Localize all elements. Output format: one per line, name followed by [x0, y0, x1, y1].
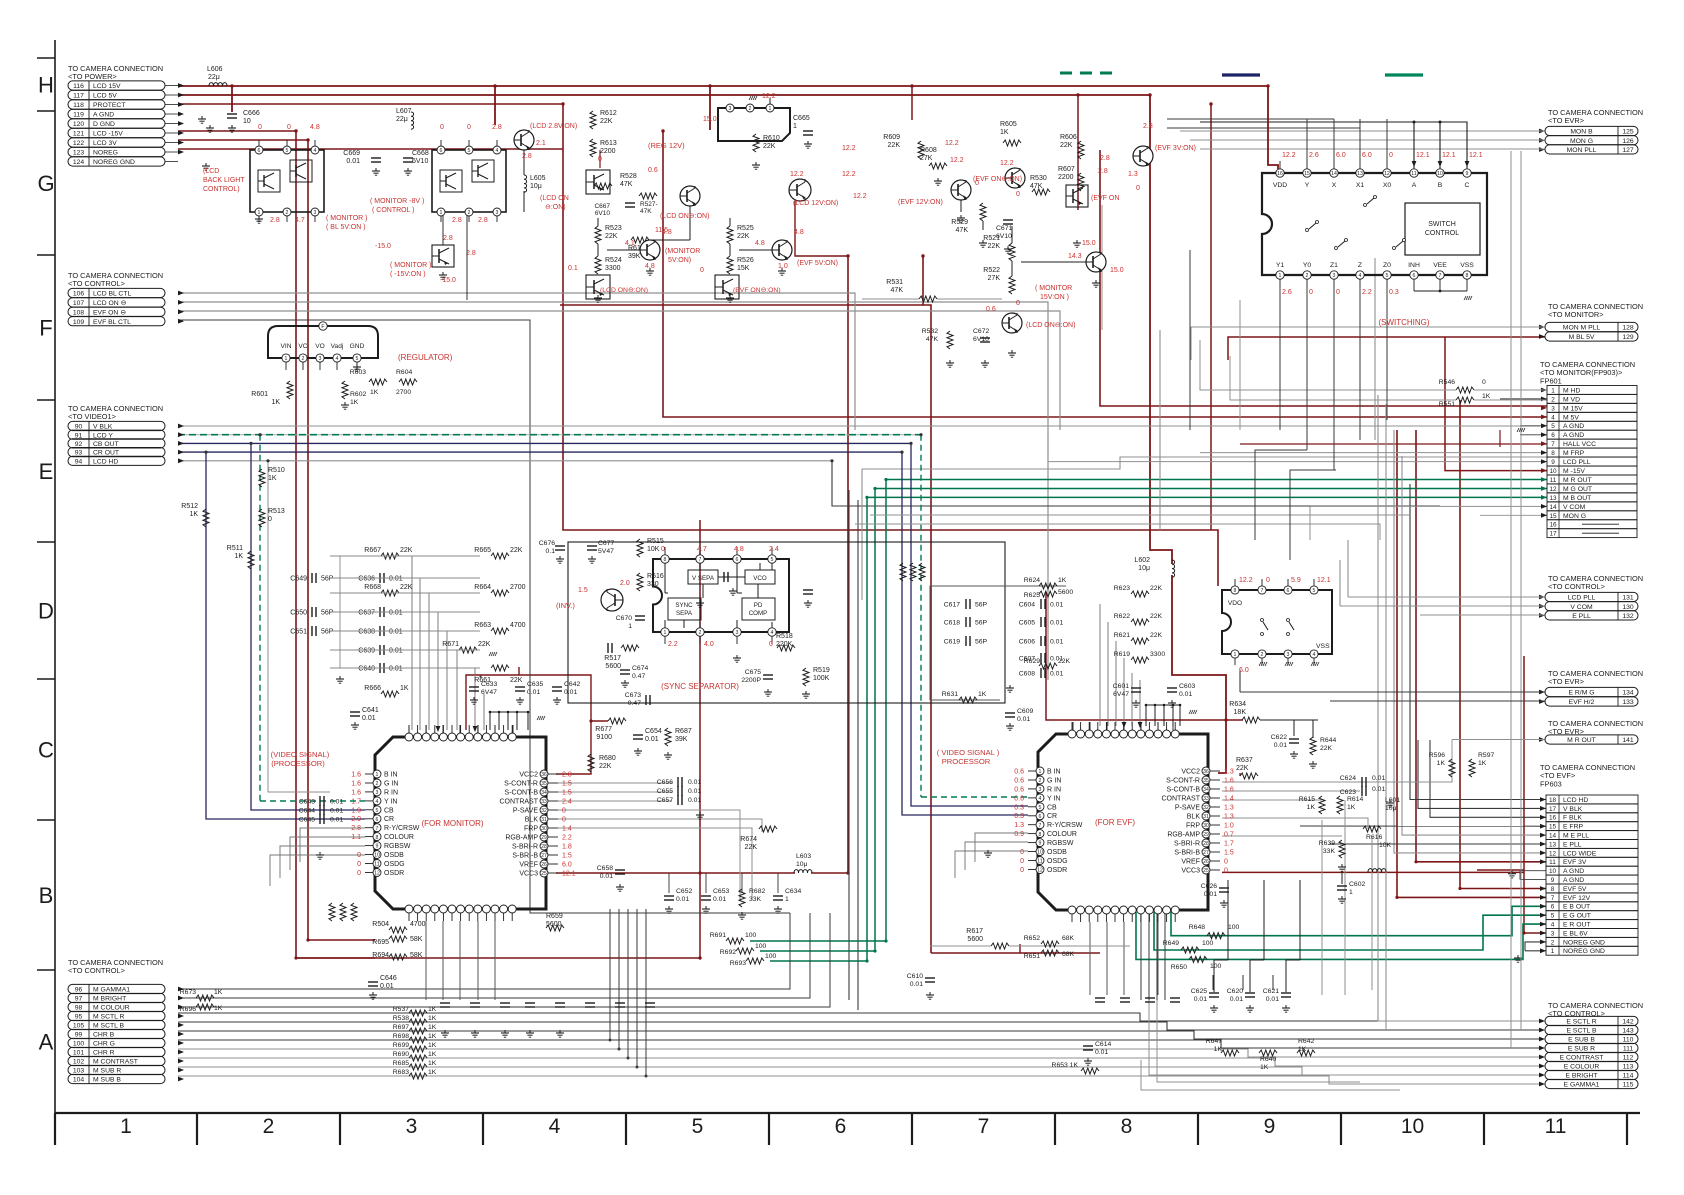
- svg-text:1K: 1K: [1482, 393, 1491, 400]
- svg-text:121: 121: [73, 131, 85, 138]
- svg-text:330: 330: [647, 581, 659, 588]
- svg-text:22μ: 22μ: [396, 116, 408, 123]
- svg-text:R634: R634: [1229, 701, 1246, 708]
- svg-text:10: 10: [1549, 468, 1557, 475]
- svg-text:1.5: 1.5: [578, 587, 588, 594]
- svg-text:10K: 10K: [647, 546, 660, 553]
- svg-text:11: 11: [1411, 171, 1416, 177]
- svg-text:100: 100: [1228, 924, 1240, 931]
- svg-text:10: 10: [1037, 850, 1043, 856]
- svg-text:0.01: 0.01: [564, 689, 577, 696]
- svg-text:1: 1: [258, 210, 261, 216]
- svg-text:108: 108: [73, 309, 85, 316]
- svg-text:27: 27: [1203, 850, 1209, 856]
- svg-text:SYNC: SYNC: [675, 602, 693, 609]
- svg-text:(LCD ON⊖:ON): (LCD ON⊖:ON): [600, 287, 648, 294]
- svg-text:2: 2: [263, 1115, 275, 1138]
- svg-text:(EVF 3V:ON): (EVF 3V:ON): [1155, 145, 1196, 152]
- svg-text:C637: C637: [358, 610, 375, 617]
- svg-text:Vadj: Vadj: [331, 343, 344, 350]
- svg-text:128: 128: [1622, 325, 1634, 332]
- svg-text:13: 13: [1549, 841, 1557, 848]
- svg-text:CB: CB: [384, 807, 394, 814]
- svg-text:4: 4: [549, 1115, 561, 1138]
- svg-text:(LCD ON: (LCD ON: [540, 195, 569, 202]
- svg-text:R510: R510: [268, 467, 285, 474]
- svg-text:R526: R526: [737, 257, 754, 264]
- svg-text:1.7: 1.7: [1224, 841, 1234, 848]
- svg-text:(PROCESSOR): (PROCESSOR): [271, 759, 325, 768]
- svg-text:1K: 1K: [428, 1069, 437, 1076]
- svg-text:4: 4: [1313, 652, 1316, 658]
- svg-text:R597: R597: [1478, 752, 1494, 759]
- svg-text:R518: R518: [776, 633, 793, 640]
- svg-text:2.8: 2.8: [452, 217, 462, 224]
- svg-text:16: 16: [1277, 171, 1283, 177]
- svg-text:17: 17: [1549, 806, 1557, 813]
- svg-text:4.8: 4.8: [662, 229, 672, 236]
- svg-text:VC: VC: [298, 343, 307, 350]
- svg-text:1K: 1K: [428, 1015, 437, 1022]
- svg-text:11: 11: [1037, 859, 1042, 865]
- svg-text:5: 5: [1386, 273, 1389, 279]
- svg-text:R606: R606: [1060, 134, 1077, 141]
- svg-text:10K: 10K: [1379, 842, 1392, 849]
- svg-text:10: 10: [1401, 1115, 1424, 1138]
- svg-text:0.01: 0.01: [1274, 742, 1287, 749]
- svg-text:C658: C658: [597, 865, 613, 872]
- svg-text:3: 3: [736, 630, 739, 636]
- svg-text:5: 5: [468, 148, 471, 154]
- svg-text:COLOUR: COLOUR: [1047, 831, 1077, 838]
- svg-text:12.1: 12.1: [1442, 152, 1456, 159]
- svg-text:C652: C652: [676, 888, 692, 895]
- svg-text:CONTROL): CONTROL): [203, 186, 240, 193]
- svg-text:C625: C625: [1191, 988, 1207, 995]
- svg-text:2: 2: [286, 210, 289, 216]
- svg-text:Z1: Z1: [1330, 262, 1338, 269]
- svg-text:LCD Y: LCD Y: [93, 432, 113, 439]
- svg-text:R698: R698: [393, 1033, 409, 1040]
- svg-text:M HD: M HD: [1563, 387, 1580, 394]
- svg-text:17: 17: [1549, 531, 1557, 538]
- svg-text:<TO CONTROL>: <TO CONTROL>: [68, 279, 125, 288]
- svg-text:M FRP: M FRP: [1563, 450, 1585, 457]
- svg-text:C608: C608: [1019, 671, 1035, 678]
- svg-text:2.6: 2.6: [1309, 152, 1319, 159]
- svg-text:0.9: 0.9: [1014, 831, 1024, 838]
- svg-text:1K: 1K: [268, 475, 277, 482]
- svg-text:1: 1: [785, 896, 789, 903]
- svg-text:C609: C609: [1017, 708, 1033, 715]
- svg-text:R-Y/CRSW: R-Y/CRSW: [1047, 822, 1083, 829]
- svg-text:107: 107: [73, 300, 85, 307]
- svg-text:R613: R613: [600, 140, 617, 147]
- svg-text:56P: 56P: [975, 639, 988, 646]
- svg-text:90: 90: [75, 424, 83, 431]
- svg-text:R648: R648: [1189, 924, 1205, 931]
- svg-text:C601: C601: [1113, 683, 1129, 690]
- svg-text:M COLOUR: M COLOUR: [93, 1005, 130, 1012]
- svg-text:4.8: 4.8: [645, 263, 655, 270]
- svg-text:4: 4: [1551, 922, 1555, 929]
- svg-text:12.2: 12.2: [853, 193, 867, 200]
- svg-text:R637: R637: [1236, 757, 1253, 764]
- svg-text:56P: 56P: [321, 610, 334, 617]
- svg-text:22K: 22K: [1236, 765, 1249, 772]
- svg-text:R668: R668: [364, 584, 381, 591]
- svg-text:X: X: [1332, 182, 1337, 189]
- svg-text:V COM: V COM: [1570, 604, 1593, 611]
- svg-text:E COLOUR: E COLOUR: [1564, 1064, 1600, 1071]
- svg-text:47K: 47K: [640, 208, 652, 215]
- svg-text:6: 6: [1287, 588, 1290, 594]
- svg-text:100: 100: [755, 943, 767, 950]
- svg-text:115: 115: [1623, 1082, 1634, 1089]
- svg-text:0.1: 0.1: [568, 265, 578, 272]
- svg-text:1.1: 1.1: [351, 834, 361, 841]
- svg-text:6V47: 6V47: [481, 689, 497, 696]
- svg-text:32: 32: [541, 808, 547, 814]
- svg-text:R671: R671: [442, 641, 459, 648]
- svg-text:18: 18: [1549, 797, 1557, 804]
- svg-text:R673: R673: [180, 989, 196, 996]
- svg-text:P-SAVE: P-SAVE: [513, 808, 538, 815]
- svg-text:5V47: 5V47: [598, 548, 614, 555]
- svg-text:C642: C642: [564, 681, 580, 688]
- svg-text:1.4: 1.4: [1224, 796, 1234, 803]
- svg-text:100: 100: [73, 1041, 85, 1048]
- svg-text:R603: R603: [350, 369, 366, 376]
- svg-text:MON PLL: MON PLL: [1567, 147, 1597, 154]
- svg-text:5: 5: [692, 1115, 704, 1138]
- svg-text:R624: R624: [1024, 577, 1040, 584]
- svg-text:R697: R697: [393, 1024, 409, 1031]
- svg-text:91: 91: [75, 432, 83, 439]
- svg-text:15: 15: [1304, 171, 1310, 177]
- svg-text:1.7: 1.7: [351, 798, 361, 805]
- svg-text:C677: C677: [598, 540, 614, 547]
- svg-text:58K: 58K: [410, 952, 423, 959]
- svg-text:Y: Y: [1305, 182, 1310, 189]
- svg-text:C636: C636: [358, 576, 375, 583]
- svg-text:143: 143: [1622, 1028, 1634, 1035]
- svg-text:R515: R515: [647, 538, 664, 545]
- svg-text:22K: 22K: [605, 233, 618, 240]
- svg-text:0.01: 0.01: [527, 689, 540, 696]
- svg-text:R608: R608: [920, 147, 937, 154]
- svg-text:0.01: 0.01: [330, 799, 343, 806]
- svg-text:C657: C657: [657, 797, 673, 804]
- svg-text:5: 5: [376, 808, 379, 814]
- svg-text:( MONITOR -8V ): ( MONITOR -8V ): [370, 198, 424, 205]
- svg-text:130: 130: [1622, 604, 1634, 611]
- svg-text:12: 12: [1549, 486, 1557, 493]
- svg-text:13: 13: [1357, 171, 1363, 177]
- svg-text:C653: C653: [713, 888, 729, 895]
- svg-text:0.3: 0.3: [1014, 804, 1024, 811]
- svg-text:4: 4: [376, 799, 379, 805]
- svg-text:X0: X0: [1383, 182, 1392, 189]
- svg-text:CR OUT: CR OUT: [93, 450, 119, 457]
- svg-text:R604: R604: [396, 369, 412, 376]
- svg-text:EVF 5V: EVF 5V: [1563, 886, 1587, 893]
- svg-text:9: 9: [1551, 877, 1555, 884]
- svg-text:VCO: VCO: [753, 575, 767, 582]
- svg-text:1.3: 1.3: [1224, 769, 1234, 776]
- svg-text:C649: C649: [290, 576, 307, 583]
- svg-text:S-BRI-B: S-BRI-B: [512, 853, 538, 860]
- svg-text:C639: C639: [358, 648, 375, 655]
- svg-text:92: 92: [75, 441, 83, 448]
- svg-text:R621: R621: [1114, 632, 1130, 639]
- svg-text:C610: C610: [907, 973, 923, 980]
- svg-text:C605: C605: [1019, 620, 1035, 627]
- svg-text:R640: R640: [1260, 1056, 1276, 1063]
- svg-text:R513: R513: [268, 508, 285, 515]
- svg-text:101: 101: [73, 1050, 85, 1057]
- svg-text:OSDR: OSDR: [384, 870, 404, 877]
- svg-text:94: 94: [75, 458, 83, 465]
- svg-text:R677: R677: [595, 726, 612, 733]
- svg-text:3: 3: [319, 356, 322, 362]
- svg-text:VO: VO: [315, 343, 325, 350]
- svg-text:CB: CB: [1047, 804, 1057, 811]
- svg-text:22K: 22K: [737, 233, 750, 240]
- svg-text:R687: R687: [675, 728, 692, 735]
- svg-text:1K: 1K: [428, 1060, 437, 1067]
- svg-text:C634: C634: [785, 888, 801, 895]
- svg-text:2: 2: [302, 356, 305, 362]
- svg-text:1K: 1K: [1478, 760, 1487, 767]
- svg-text:2.6: 2.6: [1282, 289, 1292, 296]
- svg-text:F: F: [321, 324, 324, 330]
- svg-text:12.2: 12.2: [1000, 160, 1014, 167]
- svg-text:110: 110: [1623, 1037, 1634, 1044]
- svg-text:12.1: 12.1: [1469, 152, 1483, 159]
- svg-text:Z0: Z0: [1383, 262, 1391, 269]
- svg-text:129: 129: [1622, 334, 1634, 341]
- svg-text:SEPA: SEPA: [676, 610, 693, 617]
- svg-text:L602: L602: [1134, 557, 1150, 564]
- svg-text:1.5: 1.5: [562, 790, 572, 797]
- svg-text:R521: R521: [983, 235, 1000, 242]
- svg-text:R667: R667: [364, 547, 381, 554]
- svg-text:VSS: VSS: [1460, 262, 1474, 269]
- svg-text:Z: Z: [1358, 262, 1362, 269]
- svg-text:1K: 1K: [1307, 804, 1316, 811]
- svg-text:47K: 47K: [1030, 183, 1043, 190]
- svg-text:105: 105: [73, 1023, 85, 1030]
- svg-text:0.01: 0.01: [1194, 996, 1207, 1003]
- svg-text:R644: R644: [1320, 737, 1336, 744]
- svg-text:10: 10: [243, 118, 251, 125]
- svg-text:0.01: 0.01: [713, 896, 726, 903]
- svg-text:11: 11: [1545, 1115, 1567, 1138]
- svg-text:1.4: 1.4: [562, 826, 572, 833]
- svg-text:27: 27: [541, 853, 547, 859]
- svg-text:M R OUT: M R OUT: [1567, 737, 1596, 744]
- svg-text:LCD HD: LCD HD: [93, 458, 118, 465]
- svg-text:C667: C667: [594, 203, 610, 210]
- svg-text:C666: C666: [243, 110, 260, 117]
- svg-text:7: 7: [1439, 273, 1442, 279]
- svg-text:R642: R642: [1298, 1038, 1314, 1045]
- svg-text:1: 1: [1039, 769, 1042, 775]
- svg-text:220K: 220K: [776, 641, 793, 648]
- svg-text:8: 8: [1039, 832, 1042, 838]
- svg-text:100K: 100K: [813, 675, 830, 682]
- svg-text:CONTRAST: CONTRAST: [500, 799, 539, 806]
- svg-text:47K: 47K: [956, 227, 969, 234]
- svg-text:0: 0: [1224, 868, 1228, 875]
- svg-text:R601: R601: [251, 391, 268, 398]
- svg-text:0: 0: [769, 641, 773, 648]
- svg-text:R665: R665: [474, 547, 491, 554]
- svg-text:LCD HD: LCD HD: [1563, 797, 1588, 804]
- svg-text:3: 3: [729, 106, 732, 112]
- svg-text:2.8: 2.8: [1100, 155, 1110, 162]
- svg-text:4.7: 4.7: [295, 217, 305, 224]
- svg-text:106: 106: [73, 291, 85, 298]
- svg-text:EVF BL CTL: EVF BL CTL: [93, 319, 131, 326]
- svg-text:1: 1: [1551, 948, 1555, 955]
- svg-text:3: 3: [406, 1115, 418, 1138]
- svg-text:R659: R659: [546, 913, 563, 920]
- svg-text:9100: 9100: [596, 734, 612, 741]
- svg-text:R647: R647: [1206, 1038, 1222, 1045]
- svg-text:0.6: 0.6: [1014, 786, 1024, 793]
- svg-text:LCD BL CTL: LCD BL CTL: [93, 291, 131, 298]
- svg-text:(VIDEO SIGNAL): (VIDEO SIGNAL): [271, 750, 330, 759]
- svg-text:<TO POWER>: <TO POWER>: [68, 72, 117, 81]
- svg-text:6V10: 6V10: [412, 158, 428, 165]
- svg-text:C646: C646: [380, 975, 397, 982]
- svg-text:2: 2: [1551, 396, 1555, 403]
- svg-text:5V:ON): 5V:ON): [668, 257, 691, 264]
- svg-text:R651: R651: [1024, 953, 1040, 960]
- svg-text:R610: R610: [763, 135, 780, 142]
- svg-text:RGBSW: RGBSW: [1047, 840, 1074, 847]
- svg-text:COMP: COMP: [749, 610, 768, 617]
- svg-text:VREF: VREF: [519, 862, 538, 869]
- svg-text:R663: R663: [474, 622, 491, 629]
- svg-text:0: 0: [287, 124, 291, 131]
- svg-text:A GND: A GND: [1563, 423, 1584, 430]
- svg-text:6V47: 6V47: [1113, 691, 1129, 698]
- svg-text:12.2: 12.2: [790, 171, 804, 178]
- svg-text:13: 13: [1549, 495, 1557, 502]
- svg-text:100: 100: [765, 953, 777, 960]
- svg-text:C: C: [1465, 182, 1470, 189]
- svg-text:30: 30: [1203, 823, 1209, 829]
- svg-text:L607: L607: [396, 108, 412, 115]
- svg-text:27K: 27K: [920, 155, 933, 162]
- svg-text:131: 131: [1622, 595, 1634, 602]
- svg-text:C668: C668: [412, 150, 429, 157]
- svg-text:C640: C640: [358, 666, 375, 673]
- svg-text:22K: 22K: [510, 547, 523, 554]
- svg-text:E SCTL B: E SCTL B: [1567, 1028, 1597, 1035]
- svg-text:0.01: 0.01: [1230, 996, 1243, 1003]
- svg-text:R674: R674: [740, 836, 757, 843]
- svg-text:3300: 3300: [605, 265, 621, 272]
- svg-text:1K: 1K: [1058, 577, 1067, 584]
- svg-text:E CONTRAST: E CONTRAST: [1560, 1055, 1604, 1062]
- svg-text:4.8: 4.8: [310, 124, 320, 131]
- svg-text:1.6: 1.6: [1224, 778, 1234, 785]
- svg-text:0: 0: [1224, 859, 1228, 866]
- svg-text:S-CONT-B: S-CONT-B: [505, 790, 539, 797]
- svg-text:(LCD ON⊖:ON): (LCD ON⊖:ON): [1026, 322, 1075, 329]
- svg-text:22K: 22K: [1320, 745, 1333, 752]
- svg-text:47K: 47K: [620, 181, 633, 188]
- svg-text:<TO EVR>: <TO EVR>: [1548, 116, 1584, 125]
- svg-text:0.01: 0.01: [330, 808, 343, 815]
- svg-text:15: 15: [1549, 513, 1557, 520]
- svg-text:M CONTRAST: M CONTRAST: [93, 1059, 138, 1066]
- svg-text:31: 31: [541, 817, 547, 823]
- svg-text:E PLL: E PLL: [1563, 841, 1582, 848]
- svg-text:123: 123: [73, 150, 85, 157]
- svg-text:E R/M G: E R/M G: [1568, 690, 1594, 697]
- svg-text:M VD: M VD: [1563, 396, 1580, 403]
- svg-text:0: 0: [1016, 300, 1020, 307]
- svg-text:0.01: 0.01: [676, 896, 689, 903]
- svg-text:133: 133: [1622, 699, 1634, 706]
- svg-text:R538: R538: [393, 1015, 409, 1022]
- svg-text:R530: R530: [1030, 175, 1047, 182]
- svg-text:1K: 1K: [350, 399, 359, 406]
- svg-text:2: 2: [749, 106, 752, 112]
- svg-text:15.0: 15.0: [1110, 267, 1124, 274]
- svg-text:6: 6: [835, 1115, 847, 1138]
- svg-text:C650: C650: [290, 610, 307, 617]
- svg-text:C651: C651: [290, 629, 307, 636]
- svg-text:R680: R680: [599, 755, 616, 762]
- svg-text:R525: R525: [737, 225, 754, 232]
- svg-text:R692: R692: [720, 949, 736, 956]
- svg-text:14: 14: [1549, 833, 1557, 840]
- svg-text:0.01: 0.01: [330, 817, 343, 824]
- svg-text:3: 3: [496, 210, 499, 216]
- svg-text:2.1: 2.1: [536, 140, 546, 147]
- svg-text:VSS: VSS: [1316, 643, 1330, 650]
- svg-text:15: 15: [1549, 824, 1557, 831]
- svg-text:96: 96: [75, 987, 83, 994]
- svg-text:D: D: [38, 599, 54, 624]
- svg-text:M GAMMA1: M GAMMA1: [93, 987, 130, 994]
- svg-text:2.8: 2.8: [466, 250, 476, 257]
- svg-text:11: 11: [374, 862, 379, 868]
- svg-text:R696: R696: [180, 1006, 196, 1013]
- svg-text:12.2: 12.2: [1239, 577, 1253, 584]
- svg-text:C644: C644: [299, 808, 315, 815]
- svg-text:CONTROL: CONTROL: [1425, 230, 1459, 237]
- svg-text:56P: 56P: [321, 576, 334, 583]
- svg-text:1K: 1K: [1260, 1064, 1269, 1071]
- svg-text:1K: 1K: [214, 989, 223, 996]
- svg-text:1.6: 1.6: [351, 789, 361, 796]
- svg-text:EVF H/2: EVF H/2: [1569, 699, 1595, 706]
- svg-text:0.6: 0.6: [1014, 769, 1024, 776]
- svg-text:MON G: MON G: [1563, 513, 1586, 520]
- svg-text:5600: 5600: [967, 936, 983, 943]
- svg-text:68K: 68K: [1062, 935, 1075, 942]
- svg-text:R629: R629: [1024, 658, 1040, 665]
- svg-text:C635: C635: [527, 681, 543, 688]
- svg-text:9: 9: [1039, 841, 1042, 847]
